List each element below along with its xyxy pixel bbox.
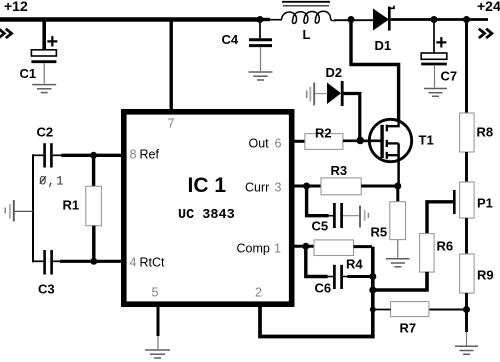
capacitor C1 bbox=[20, 31, 59, 84]
svg-text:C7: C7 bbox=[441, 69, 458, 84]
svg-text:D2: D2 bbox=[326, 65, 343, 80]
svg-text:3: 3 bbox=[275, 181, 282, 195]
wire C4 lead bbox=[259, 21, 261, 38]
resistor R4 bbox=[314, 240, 363, 272]
svg-text:C1: C1 bbox=[20, 66, 37, 81]
diode D1 bbox=[373, 6, 394, 53]
wire R1 bottom bbox=[92, 226, 95, 262]
capacitor C5 bbox=[312, 203, 360, 234]
node R7 tap bbox=[370, 307, 376, 313]
svg-text:C6: C6 bbox=[315, 281, 332, 296]
node Ref/R1 junction bbox=[90, 152, 97, 159]
svg-text:R2: R2 bbox=[315, 126, 332, 141]
svg-text:0,1: 0,1 bbox=[39, 175, 65, 189]
wire R9 bottom bbox=[465, 293, 468, 332]
svg-text:1: 1 bbox=[274, 242, 281, 256]
svg-text:+24: +24 bbox=[477, 0, 500, 14]
svg-text:RtCt: RtCt bbox=[140, 256, 166, 270]
svg-text:4: 4 bbox=[130, 256, 137, 270]
svg-text:5: 5 bbox=[152, 286, 159, 300]
resistor R2 bbox=[305, 126, 343, 150]
svg-text:P1: P1 bbox=[477, 196, 493, 211]
resistor R1 bbox=[63, 186, 102, 225]
node RtCt/R1 junction bbox=[90, 258, 97, 265]
node rail/L junction bbox=[257, 16, 264, 23]
capacitor C6 bbox=[315, 265, 342, 296]
side ground (D2) bbox=[307, 83, 315, 106]
wire R8 to P1 bbox=[465, 152, 468, 183]
svg-text:R1: R1 bbox=[63, 198, 80, 213]
svg-text:R6: R6 bbox=[437, 239, 454, 254]
wire R4 right bbox=[353, 245, 372, 248]
wire R6 bottom to feedback node bbox=[372, 272, 427, 290]
C2 value 0,1 bbox=[39, 175, 65, 189]
node R7/R9 junction bbox=[463, 306, 470, 313]
svg-text:+: + bbox=[436, 32, 448, 54]
left connector chevrons bbox=[0, 29, 4, 38]
svg-text:R3: R3 bbox=[331, 163, 348, 178]
wire wiper to R6 bbox=[427, 202, 453, 234]
svg-text:2: 2 bbox=[255, 286, 262, 300]
resistor R7 bbox=[391, 302, 429, 336]
wire C5 branch bbox=[307, 187, 329, 216]
svg-text:8: 8 bbox=[130, 148, 137, 162]
wire pin 2 to feedback bbox=[260, 305, 375, 337]
svg-text:T1: T1 bbox=[419, 133, 434, 148]
node C6 junction bbox=[369, 273, 376, 280]
node right column tap bbox=[463, 16, 470, 23]
resistor R8 bbox=[460, 113, 494, 152]
inductor L bbox=[262, 2, 374, 42]
svg-text:R5: R5 bbox=[371, 225, 388, 240]
svg-text:R7: R7 bbox=[400, 321, 417, 336]
wire D2 branch bbox=[344, 94, 360, 140]
node gate junction bbox=[356, 137, 364, 145]
wire pin 5 ground lead bbox=[157, 305, 160, 336]
svg-text:R4: R4 bbox=[346, 257, 363, 272]
wire pin 6 Out bbox=[292, 140, 306, 143]
wire R3 right bbox=[361, 185, 398, 188]
svg-text:C5: C5 bbox=[312, 219, 329, 234]
transistor T1 bbox=[361, 119, 434, 162]
wire R5 top bbox=[396, 186, 399, 202]
wire pin 8 Ref bbox=[62, 154, 123, 157]
resistor R6 bbox=[420, 234, 454, 273]
node source/R3 junction bbox=[394, 183, 401, 190]
wire P1 to R9 bbox=[465, 218, 468, 255]
wire C1 lead bbox=[42, 21, 46, 49]
node R6 wire junction bbox=[369, 287, 376, 294]
svg-text:Out: Out bbox=[249, 137, 270, 151]
wire pin 7 supply bbox=[169, 21, 172, 110]
diode D2 bbox=[315, 65, 342, 106]
wire C6 branch bbox=[306, 247, 328, 277]
node Comp junction bbox=[302, 243, 309, 250]
side ground (C5) bbox=[360, 206, 368, 228]
wire T1 drain path bbox=[351, 20, 399, 121]
wire pin 4 RtCt bbox=[60, 260, 122, 263]
wire left ground bus bbox=[32, 154, 34, 262]
wire T1 source bbox=[397, 143, 400, 186]
wire pin 1 Comp bbox=[292, 245, 315, 248]
node Curr junction bbox=[303, 183, 310, 190]
ground (R5) bbox=[386, 259, 410, 267]
resistor R3 bbox=[321, 163, 361, 195]
wire +12 rail bbox=[0, 17, 262, 22]
node C7 tap bbox=[431, 16, 438, 23]
svg-text:7: 7 bbox=[168, 117, 175, 131]
side ground (left) bbox=[5, 200, 33, 222]
ground (pin 5) bbox=[145, 350, 170, 358]
ground (C1) bbox=[32, 85, 56, 93]
wire R7 right bbox=[429, 309, 467, 311]
wire right column top bbox=[465, 21, 468, 114]
svg-text:C2: C2 bbox=[37, 125, 54, 140]
wire R1 top bbox=[92, 155, 95, 187]
right connector chevrons bbox=[479, 29, 485, 38]
wire R7 left bbox=[373, 309, 391, 311]
svg-text:C3: C3 bbox=[38, 282, 55, 297]
svg-text:Comp: Comp bbox=[237, 242, 270, 256]
ground (R9) bbox=[455, 346, 478, 354]
capacitor C4 bbox=[222, 32, 273, 71]
svg-text:D1: D1 bbox=[375, 38, 392, 53]
svg-text:C4: C4 bbox=[222, 32, 239, 47]
svg-text:Curr: Curr bbox=[245, 181, 269, 195]
svg-text:UC 3843: UC 3843 bbox=[178, 208, 235, 223]
capacitor C3 bbox=[32, 250, 62, 297]
resistor R5 bbox=[371, 202, 406, 258]
svg-text:+12: +12 bbox=[4, 0, 28, 14]
wire pin 3 Curr bbox=[292, 185, 322, 188]
resistor R9 bbox=[460, 254, 494, 293]
svg-text:L: L bbox=[303, 27, 311, 42]
wire D1 to +24 bbox=[389, 18, 488, 21]
potentiometer P1 bbox=[454, 182, 493, 218]
svg-text:6: 6 bbox=[275, 137, 282, 151]
svg-text:IC 1: IC 1 bbox=[188, 174, 227, 197]
wire feedback vertical bbox=[371, 247, 375, 339]
wire R2 to gate bbox=[343, 140, 370, 143]
IC1 UC3843 box bbox=[124, 112, 292, 304]
wire C6 right bbox=[343, 276, 349, 278]
capacitor C7 bbox=[421, 32, 457, 88]
svg-text:R9: R9 bbox=[477, 268, 494, 283]
ground (C4) bbox=[249, 72, 273, 80]
svg-text:+: + bbox=[47, 31, 59, 53]
node L/D1 junction bbox=[348, 16, 355, 23]
svg-text:Ref: Ref bbox=[140, 148, 160, 162]
capacitor C2 bbox=[32, 125, 63, 168]
wire C7 lead bbox=[433, 21, 435, 53]
svg-text:R8: R8 bbox=[477, 125, 494, 140]
ground (C7) bbox=[424, 89, 447, 97]
